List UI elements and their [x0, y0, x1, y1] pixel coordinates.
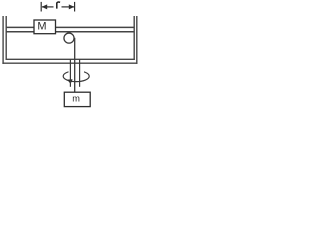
table band bottom line	[6, 31, 134, 33]
bottom plate inner line	[6, 58, 135, 60]
block m	[64, 92, 90, 106]
tube right line	[79, 59, 81, 87]
rotation ellipse arrow	[63, 71, 89, 82]
dimension arrow left	[42, 6, 54, 8]
block M	[34, 20, 56, 34]
rotation arrowhead	[67, 79, 72, 84]
dimension arrow right	[62, 6, 75, 8]
dimension tick left	[40, 2, 42, 12]
table band top line	[6, 26, 134, 28]
left wall inner line	[5, 16, 7, 60]
svg-text:m: m	[72, 93, 80, 103]
right wall inner line	[133, 16, 135, 60]
hidden top of ellipse (behind tube)	[69, 69, 85, 72]
string vertical	[74, 38, 76, 92]
right wall outer line	[136, 16, 138, 64]
label r	[57, 2, 60, 9]
left wall outer line	[2, 16, 4, 64]
bottom plate outer line	[2, 62, 137, 64]
tube left line	[69, 59, 71, 87]
pulley circle	[64, 33, 74, 43]
svg-text:M: M	[37, 20, 46, 32]
dimension tick right	[74, 2, 76, 12]
